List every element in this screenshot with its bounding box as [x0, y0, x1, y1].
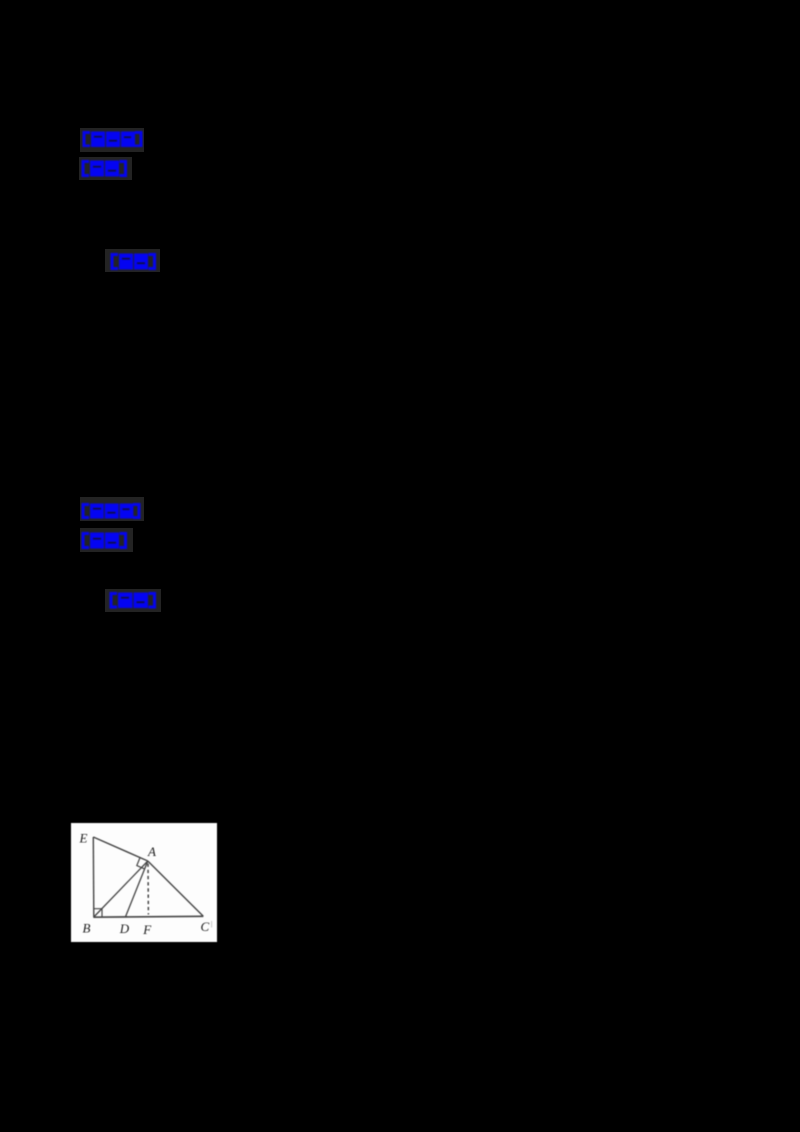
svg-text:A: A: [147, 844, 156, 859]
line AB: [94, 861, 148, 917]
faint scan tick right of C: [211, 921, 213, 928]
marker 答案 B2: [81, 532, 128, 549]
marker highlight box A3: [105, 249, 160, 272]
svg-text:F: F: [142, 922, 152, 937]
right angle mark at A: [137, 858, 145, 869]
line BC: [93, 915, 203, 918]
marker 详解 B3: [109, 592, 157, 609]
marker 详解 A3: [110, 253, 157, 270]
line EB: [92, 837, 95, 917]
marker 知识点 B1: [81, 503, 141, 519]
svg-text:C: C: [201, 919, 210, 934]
marker highlight box B1: [80, 497, 144, 521]
svg-text:B: B: [83, 921, 91, 936]
line EA: [93, 837, 148, 861]
right angle mark at B: [94, 909, 102, 917]
marker highlight box A1: [80, 128, 144, 152]
svg-text:D: D: [119, 921, 130, 936]
marker highlight box B2: [80, 528, 133, 552]
dashed altitude AF: [147, 864, 149, 915]
marker 知识点 A1: [82, 131, 143, 148]
line AD: [126, 861, 148, 917]
marker 答案 A2: [81, 160, 128, 177]
svg-text:E: E: [79, 831, 88, 846]
marker highlight box A2: [79, 157, 132, 180]
marker highlight box B3: [105, 589, 161, 612]
geometry figure panel: [71, 823, 217, 942]
line AC: [148, 861, 204, 916]
